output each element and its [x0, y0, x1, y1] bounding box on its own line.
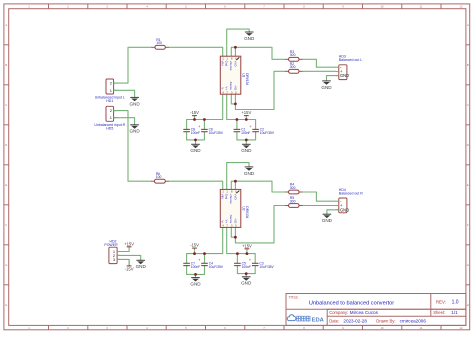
resistor R5 — [285, 196, 302, 207]
svg-text:E: E — [467, 183, 469, 187]
wire U1 V+ to +15V rail — [227, 94, 256, 119]
wire HD2 pin1 to +15V — [117, 251, 129, 253]
svg-text:D: D — [467, 143, 469, 147]
junction C1 top — [236, 118, 239, 121]
resistor R4 — [285, 183, 302, 194]
junction lower-right gnd — [245, 272, 248, 275]
svg-text:V+: V+ — [225, 220, 229, 224]
svg-text:Unbalanced to balanced convert: Unbalanced to balanced convertor — [309, 300, 394, 306]
wire upper-left bank bottom rail — [187, 139, 205, 141]
svg-text:GND: GND — [190, 282, 201, 287]
svg-text:1.0: 1.0 — [452, 300, 459, 306]
ground above U1 — [244, 32, 255, 41]
wire U2 Gnd pin to ground — [227, 163, 249, 190]
EasyEDA logo — [287, 315, 296, 321]
wire to ground stub — [195, 274, 197, 277]
wire lower-right bank bottom rail — [237, 273, 255, 275]
svg-text:HD1: HD1 — [106, 99, 113, 103]
wire HD4 pin3 to GND — [327, 210, 344, 214]
resistor R2 — [285, 62, 302, 73]
svg-text:10uF/35V: 10uF/35V — [260, 131, 275, 135]
svg-text:G: G — [5, 263, 7, 267]
svg-text:10uF/35V: 10uF/35V — [209, 131, 224, 135]
svg-text:Sheet:: Sheet: — [433, 310, 445, 315]
ground lower-right bank — [241, 277, 252, 286]
power flag -15V — [190, 110, 199, 119]
ground upper-left bank — [190, 144, 201, 153]
wire R1 to U1 VIN — [169, 47, 223, 56]
svg-text:10uF/35V: 10uF/35V — [209, 265, 224, 269]
svg-text:1/1: 1/1 — [451, 310, 458, 315]
svg-text:-Sense: -Sense — [229, 81, 233, 91]
capacitor C7 — [183, 254, 200, 275]
ground near HD1 — [129, 97, 140, 106]
junction upper-left gnd — [194, 139, 197, 142]
junction C4 top — [203, 252, 206, 255]
wire HD3 pin3 to GND — [327, 76, 344, 81]
svg-text:1: 1 — [110, 88, 112, 93]
svg-text:DRV134: DRV134 — [245, 73, 249, 85]
svg-text:Gnd: Gnd — [225, 61, 229, 67]
svg-text:DRV134: DRV134 — [245, 206, 249, 218]
wire R6 to U2 VIN — [169, 181, 223, 189]
svg-text:E: E — [5, 183, 7, 187]
wire U1 -Sense tie — [231, 94, 235, 104]
svg-text:100nF: 100nF — [191, 131, 200, 135]
wire HD1 pin1 to GND — [114, 90, 135, 97]
svg-text:12: 12 — [459, 326, 463, 330]
wire U2 +Sense tie — [234, 181, 236, 189]
junction -15V flag — [193, 118, 196, 121]
svg-text:+Sense: +Sense — [229, 194, 233, 204]
wire to ground stub — [245, 274, 247, 277]
svg-text:12: 12 — [459, 5, 463, 9]
capacitor C3 — [249, 254, 275, 274]
resistor R3 — [285, 50, 302, 61]
wire U2 V+ to +15V rail — [227, 227, 256, 253]
wire R4 to HD4 pin1 — [303, 192, 336, 201]
svg-text:V-: V- — [221, 87, 225, 90]
svg-text:+VO: +VO — [233, 194, 237, 201]
svg-text:G: G — [467, 263, 469, 267]
svg-text:300: 300 — [290, 65, 296, 69]
svg-text:100: 100 — [156, 41, 162, 45]
svg-text:C: C — [467, 103, 469, 107]
svg-text:+VO: +VO — [233, 61, 237, 68]
capacitor C6 — [198, 120, 224, 140]
wire lower-left bank bottom rail — [187, 273, 205, 275]
svg-text:+15V: +15V — [124, 241, 134, 246]
IC U2 DRV134 — [220, 189, 249, 227]
svg-text:Company:: Company: — [329, 310, 348, 315]
wire HD2 pin2 to GND — [117, 255, 141, 260]
capacitor C1 — [234, 120, 251, 140]
svg-text:Date:: Date: — [329, 319, 339, 324]
svg-text:300: 300 — [290, 186, 296, 190]
svg-text:EDA: EDA — [312, 317, 325, 323]
svg-text:-Sense: -Sense — [229, 214, 233, 224]
svg-text:GND: GND — [129, 101, 140, 106]
wire U2 -Sense tie — [231, 227, 235, 237]
svg-text:V-: V- — [221, 220, 225, 223]
wire upper-right bank bottom rail — [237, 139, 256, 141]
svg-text:POWER: POWER — [104, 243, 118, 247]
wire U2 -VO to R5 — [235, 206, 285, 243]
svg-text:Balanced out R: Balanced out R — [339, 192, 363, 196]
svg-text:B: B — [5, 63, 7, 67]
junction U2 +VO/+Sense — [234, 180, 237, 183]
svg-text:100nF: 100nF — [242, 265, 251, 269]
wire U1 +Sense tie — [234, 47, 236, 56]
svg-text:GND: GND — [322, 218, 333, 223]
svg-text:1: 1 — [110, 115, 112, 120]
svg-text:H: H — [5, 303, 7, 307]
power flag -15V — [190, 243, 199, 254]
wire to ground stub — [195, 140, 197, 144]
svg-text:GND: GND — [136, 264, 147, 269]
svg-text:-VO: -VO — [233, 85, 237, 91]
power flag +15V — [241, 110, 251, 119]
svg-text:100nF: 100nF — [241, 131, 250, 135]
svg-text:10uF/35V: 10uF/35V — [259, 265, 274, 269]
wire HD2 pin3 to -15V — [117, 259, 129, 266]
svg-text:GND: GND — [244, 171, 255, 176]
svg-text:GND: GND — [241, 148, 252, 153]
junction C6 top — [203, 118, 206, 121]
svg-text:VIN: VIN — [221, 61, 225, 66]
svg-text:REV:: REV: — [436, 300, 446, 305]
svg-text:A: A — [467, 23, 469, 27]
svg-text:-15V: -15V — [190, 243, 199, 248]
svg-text:cmircea2006: cmircea2006 — [400, 319, 427, 324]
junction U1 +VO/+Sense — [234, 46, 237, 49]
svg-text:V+: V+ — [225, 86, 229, 90]
junction C5 top — [236, 252, 239, 255]
junction +15V flag — [245, 118, 248, 121]
svg-text:Balanced out L: Balanced out L — [339, 58, 362, 62]
svg-text:Drawn By:: Drawn By: — [376, 319, 395, 324]
svg-text:GND: GND — [340, 73, 349, 78]
svg-text:+Sense: +Sense — [229, 61, 233, 71]
wire U2 +VO to R4 — [231, 181, 285, 192]
wire R3 to HD3 pin1 — [303, 59, 336, 67]
svg-text:2: 2 — [110, 108, 112, 113]
svg-text:-15V: -15V — [190, 110, 199, 115]
svg-text:-15V: -15V — [125, 267, 134, 272]
svg-text:10: 10 — [380, 5, 384, 9]
wire R2 to HD3 pin2 — [303, 70, 336, 72]
wire U1 Gnd pin to ground — [227, 29, 250, 56]
wire R5 to HD4 pin2 — [303, 205, 336, 207]
svg-text:GND: GND — [321, 85, 332, 90]
svg-text:H: H — [467, 303, 469, 307]
IC U1 DRV134 — [220, 56, 249, 94]
svg-text:11: 11 — [420, 326, 423, 330]
wire to ground stub — [245, 140, 247, 144]
wire U1 +VO to R3 — [231, 47, 285, 59]
wire HD1 pin2 to R1 — [114, 47, 152, 83]
svg-text:TITLE:: TITLE: — [289, 295, 299, 299]
connector HD4 Balanced out R — [336, 188, 364, 213]
title block — [286, 294, 466, 326]
resistor R1 — [152, 38, 169, 49]
wire HD5 pin2 to R6 — [114, 111, 151, 182]
connector HD3 Balanced out L — [336, 55, 363, 80]
junction +15V flag 2 — [246, 252, 249, 255]
svg-text:U2: U2 — [241, 206, 245, 210]
ground near HD3 — [321, 81, 332, 90]
svg-text:3: 3 — [113, 257, 115, 262]
connector HD1 Unbalanced input L — [95, 79, 125, 103]
svg-text:GND: GND — [129, 129, 140, 134]
svg-text:VIN: VIN — [221, 194, 225, 199]
svg-text:300: 300 — [290, 199, 296, 203]
svg-text:F: F — [5, 223, 7, 227]
svg-text:A: A — [5, 23, 7, 27]
svg-text:+15V: +15V — [241, 110, 251, 115]
svg-text:Mircea Cucos: Mircea Cucos — [350, 310, 379, 315]
junction U1 -VO/-Sense — [234, 103, 237, 106]
ground near HD4 — [322, 214, 333, 223]
capacitor C2 — [249, 120, 275, 140]
ground near HD2 — [136, 260, 147, 269]
wire U1 V- to -15V rail — [187, 94, 223, 119]
wire U2 V- to -15V rail — [187, 227, 223, 253]
svg-text:B: B — [467, 63, 469, 67]
svg-text:GND: GND — [241, 281, 252, 286]
capacitor C8 — [183, 120, 200, 140]
connector HD5 Unbalanced input R — [94, 106, 125, 130]
junction lower-left gnd — [194, 273, 197, 276]
svg-text:U1: U1 — [241, 73, 245, 77]
ground above U2 — [244, 167, 255, 176]
ground lower-left bank — [190, 278, 201, 287]
wire HD5 pin1 to GND — [114, 118, 135, 125]
svg-text:100nF: 100nF — [191, 265, 200, 269]
svg-text:F: F — [467, 223, 469, 227]
svg-text:HD5: HD5 — [106, 127, 113, 131]
svg-text:2023-02-28: 2023-02-28 — [343, 319, 367, 324]
connector HD2 POWER — [104, 240, 120, 264]
svg-text:Gnd: Gnd — [225, 194, 229, 200]
power flag -15V — [125, 259, 134, 271]
svg-text:2: 2 — [110, 81, 112, 86]
svg-text:100: 100 — [156, 175, 162, 179]
junction upper-right gnd — [245, 139, 248, 142]
ground near HD5 — [129, 125, 140, 134]
wire U1 -VO to R2 — [235, 71, 285, 109]
ground upper-right bank — [241, 144, 252, 153]
svg-text:300: 300 — [290, 53, 296, 57]
svg-text:C: C — [5, 103, 7, 107]
capacitor C4 — [198, 254, 224, 275]
power flag +15V — [242, 243, 252, 253]
junction U2 -VO/-Sense — [234, 236, 237, 239]
power flag +15V — [124, 241, 134, 251]
svg-text:-VO: -VO — [233, 218, 237, 224]
svg-text:GND: GND — [244, 36, 255, 41]
svg-text:GND: GND — [340, 207, 349, 212]
svg-text:+15V: +15V — [242, 243, 252, 248]
svg-text:GND: GND — [190, 148, 201, 153]
svg-text:D: D — [5, 143, 7, 147]
capacitor C5 — [234, 254, 251, 274]
resistor R6 — [151, 172, 169, 183]
junction -15V flag 2 — [193, 252, 196, 255]
svg-text:10: 10 — [380, 326, 384, 330]
svg-text:11: 11 — [420, 5, 423, 9]
